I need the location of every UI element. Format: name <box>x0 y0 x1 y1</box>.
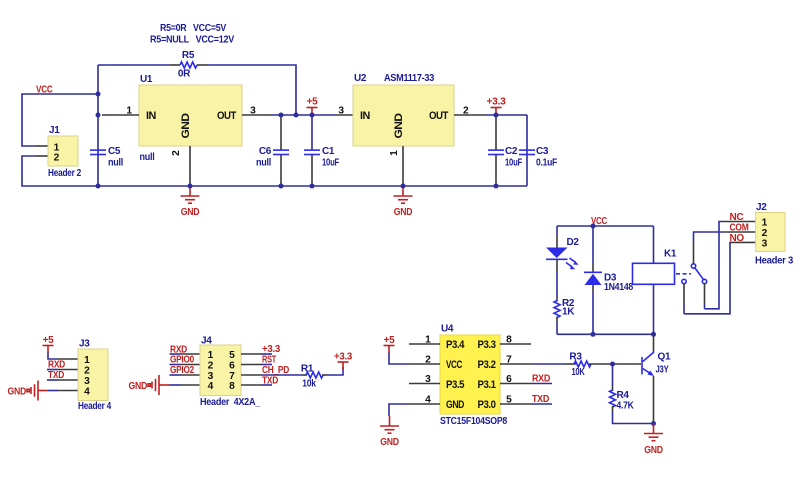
svg-text:C2: C2 <box>505 146 518 157</box>
svg-text:null: null <box>256 158 271 169</box>
svg-text:ASM1117-33: ASM1117-33 <box>384 73 435 84</box>
svg-text:R5: R5 <box>182 50 195 61</box>
svg-text:GND: GND <box>181 207 200 218</box>
svg-text:R4: R4 <box>617 390 630 401</box>
svg-text:NC: NC <box>730 212 744 223</box>
svg-text:P3.4: P3.4 <box>446 339 464 351</box>
svg-text:null: null <box>108 158 123 169</box>
svg-text:6: 6 <box>229 361 235 372</box>
svg-text:null: null <box>140 152 155 163</box>
svg-text:IN: IN <box>360 110 370 122</box>
svg-text:C3: C3 <box>536 146 549 157</box>
svg-text:1: 1 <box>762 218 768 229</box>
svg-text:4: 4 <box>425 395 431 406</box>
svg-text:OUT: OUT <box>217 110 237 122</box>
svg-text:C6: C6 <box>259 146 272 157</box>
svg-text:GND: GND <box>394 207 413 218</box>
svg-text:C5: C5 <box>108 146 121 157</box>
svg-text:J3Y: J3Y <box>656 365 669 376</box>
svg-text:1: 1 <box>208 350 214 361</box>
svg-text:U1: U1 <box>140 74 153 85</box>
svg-text:5: 5 <box>229 350 235 361</box>
svg-text:J4: J4 <box>201 336 212 347</box>
svg-text:Header 4X2A_: Header 4X2A_ <box>200 397 261 408</box>
svg-text:+5: +5 <box>43 335 55 346</box>
svg-text:D2: D2 <box>567 237 580 248</box>
svg-text:CH_PD: CH_PD <box>262 365 289 376</box>
svg-text:4: 4 <box>84 387 90 398</box>
svg-text:0R: 0R <box>178 69 191 80</box>
svg-text:RXD: RXD <box>532 374 550 385</box>
svg-text:P3.0: P3.0 <box>478 399 496 411</box>
svg-text:GND: GND <box>8 387 27 398</box>
svg-text:5: 5 <box>506 395 512 406</box>
svg-text:10uF: 10uF <box>505 158 522 169</box>
svg-text:+3.3: +3.3 <box>262 344 281 355</box>
svg-text:8: 8 <box>506 335 512 346</box>
svg-text:2: 2 <box>425 355 431 366</box>
svg-text:J1: J1 <box>49 125 60 136</box>
svg-text:U4: U4 <box>441 324 454 335</box>
svg-text:GND: GND <box>446 399 465 411</box>
svg-text:R5=0R VCC=5V: R5=0R VCC=5V <box>160 23 227 34</box>
svg-text:3: 3 <box>250 106 256 117</box>
svg-text:+3.3: +3.3 <box>487 97 507 108</box>
svg-text:2: 2 <box>171 150 182 156</box>
svg-text:OUT: OUT <box>429 110 449 122</box>
svg-text:P3.5: P3.5 <box>446 379 464 391</box>
svg-text:3: 3 <box>425 374 431 385</box>
svg-text:2: 2 <box>54 153 60 164</box>
svg-text:Header 4: Header 4 <box>78 401 112 412</box>
svg-text:IN: IN <box>146 110 156 122</box>
svg-text:10k: 10k <box>302 379 316 390</box>
svg-text:R5=NULL VCC=12V: R5=NULL VCC=12V <box>150 35 235 46</box>
svg-text:0.1uF: 0.1uF <box>536 158 557 169</box>
svg-text:TXD: TXD <box>532 394 549 405</box>
svg-text:1: 1 <box>425 335 431 346</box>
svg-text:4: 4 <box>208 381 214 392</box>
svg-text:1: 1 <box>84 355 90 366</box>
svg-text:2: 2 <box>84 366 90 377</box>
svg-text:GND: GND <box>380 437 399 448</box>
svg-text:1N4148: 1N4148 <box>604 282 634 293</box>
svg-text:R3: R3 <box>569 352 582 363</box>
svg-text:1K: 1K <box>562 307 575 318</box>
svg-text:GND: GND <box>393 113 405 139</box>
svg-text:U2: U2 <box>354 73 367 84</box>
svg-text:J2: J2 <box>756 202 767 213</box>
svg-text:STC15F104SOP8: STC15F104SOP8 <box>440 416 508 427</box>
svg-text:3: 3 <box>84 376 90 387</box>
svg-text:P3.2: P3.2 <box>478 359 496 371</box>
svg-text:+5: +5 <box>384 335 396 346</box>
svg-text:R1: R1 <box>301 364 314 375</box>
svg-text:8: 8 <box>229 381 235 392</box>
svg-text:6: 6 <box>506 374 512 385</box>
svg-text:10K: 10K <box>572 367 586 378</box>
svg-text:C1: C1 <box>322 146 335 157</box>
svg-text:10uF: 10uF <box>322 158 339 169</box>
svg-text:2: 2 <box>208 361 214 372</box>
svg-text:GND: GND <box>129 381 148 392</box>
svg-text:+3.3: +3.3 <box>334 352 353 363</box>
svg-text:+5: +5 <box>307 97 319 108</box>
svg-text:P3.1: P3.1 <box>478 379 496 391</box>
svg-text:Header 2: Header 2 <box>48 168 82 179</box>
svg-text:K1: K1 <box>664 249 677 260</box>
svg-text:RST: RST <box>262 355 276 366</box>
svg-text:VCC: VCC <box>446 359 463 371</box>
svg-text:2: 2 <box>463 106 469 117</box>
svg-text:GND: GND <box>644 445 663 456</box>
svg-text:2: 2 <box>762 228 768 239</box>
svg-text:Q1: Q1 <box>658 352 671 363</box>
svg-text:GND: GND <box>180 113 192 139</box>
svg-text:P3.3: P3.3 <box>478 339 496 351</box>
svg-text:COM: COM <box>730 223 749 234</box>
svg-text:7: 7 <box>506 355 512 366</box>
svg-text:4.7K: 4.7K <box>617 401 635 412</box>
svg-text:1: 1 <box>126 106 132 117</box>
svg-text:NO: NO <box>730 233 745 244</box>
svg-text:1: 1 <box>389 150 400 156</box>
svg-text:3: 3 <box>338 106 344 117</box>
svg-text:TXD: TXD <box>262 376 278 387</box>
svg-text:Header 3: Header 3 <box>755 256 794 267</box>
svg-text:3: 3 <box>762 239 768 250</box>
svg-text:J3: J3 <box>79 339 90 350</box>
